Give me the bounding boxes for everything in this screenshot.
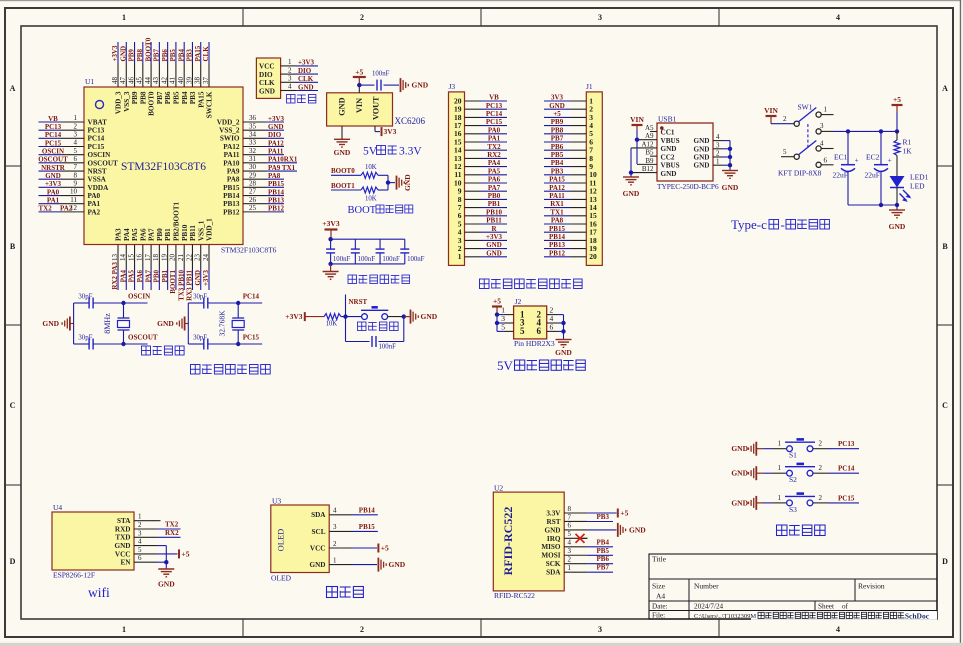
USB1 pin B12 (left) xyxy=(631,165,657,173)
J1 pin 3 xyxy=(570,113,593,122)
net label OSCOUT xyxy=(124,334,158,345)
svg-text:PB1: PB1 xyxy=(161,270,169,283)
U1 pin 17 PA7 (bottom) xyxy=(144,228,156,269)
net label NRST xyxy=(349,298,368,306)
svg-text:Type-c: Type-c xyxy=(731,217,767,232)
svg-text:5: 5 xyxy=(501,322,505,331)
pushbutton S1 xyxy=(785,439,815,459)
U3 pin 1 GND xyxy=(310,556,352,569)
svg-text:3: 3 xyxy=(568,547,572,555)
net label CLK on U1 pin 37 xyxy=(202,42,210,63)
wire USB1 right ground bus xyxy=(722,141,732,171)
svg-text:3.3V: 3.3V xyxy=(546,509,561,517)
svg-text:41: 41 xyxy=(169,77,177,85)
net label PA11 on J1 pin 13 xyxy=(544,192,570,200)
svg-text:PC14: PC14 xyxy=(838,465,855,473)
svg-text:PB8: PB8 xyxy=(136,49,144,62)
net label PA12 on J1 pin 12 xyxy=(544,184,570,192)
svg-text:VDD_3: VDD_3 xyxy=(115,91,123,114)
svg-text:GND: GND xyxy=(334,148,351,157)
net label PC14 xyxy=(238,293,262,304)
capacitor C3 100nF (filter) xyxy=(351,239,375,264)
net label GND on J3 pin 2 xyxy=(481,241,507,249)
J2 pin 3 xyxy=(501,314,513,323)
svg-text:PB12: PB12 xyxy=(549,249,565,257)
svg-text:GND: GND xyxy=(259,87,275,95)
net label +3V3 on U1 pin 36 xyxy=(266,115,285,123)
J1 pin 15 xyxy=(570,211,597,220)
connector USB1 TYPEC-250D-BCP6 body xyxy=(657,115,719,192)
resistor R3 10K (BOOT1) xyxy=(361,187,378,203)
svg-text:19: 19 xyxy=(160,254,168,262)
svg-text:27: 27 xyxy=(249,188,257,196)
svg-text:PA0: PA0 xyxy=(488,126,501,134)
svg-text:B: B xyxy=(10,242,16,251)
svg-text:.SchDoc: .SchDoc xyxy=(903,612,930,621)
J1 pin 2 xyxy=(570,105,593,114)
svg-text:PA15: PA15 xyxy=(197,91,205,108)
caption 单片机引脚外引排针 xyxy=(480,279,583,289)
svg-text:GND: GND xyxy=(486,249,502,257)
net label GND on J3 pin 1 xyxy=(481,249,507,257)
svg-text:GND: GND xyxy=(115,542,131,550)
svg-text:VDD_1: VDD_1 xyxy=(206,218,214,241)
svg-text:47: 47 xyxy=(119,77,127,85)
U1 pin 35 VSS_2 (right) xyxy=(219,122,266,134)
U1 pin 45 PB8 (top) xyxy=(136,63,148,104)
J1 pin 17 xyxy=(570,228,597,237)
svg-text:SDA: SDA xyxy=(311,511,326,519)
svg-text:31: 31 xyxy=(249,155,257,163)
svg-text:PA3: PA3 xyxy=(115,228,123,241)
svg-text:+: + xyxy=(855,156,859,165)
wire SW1 pin3 to power rail xyxy=(834,129,900,133)
J1 pin 11 xyxy=(570,178,597,187)
svg-text:1: 1 xyxy=(333,556,337,564)
net label RX3 PB11 on U1 pin 22 xyxy=(186,269,194,301)
svg-text:2: 2 xyxy=(819,494,823,502)
U1 pin 1 VBAT (left) xyxy=(61,114,107,126)
net label PB13 on J1 pin 19 xyxy=(544,241,570,249)
svg-text:GND: GND xyxy=(42,319,59,328)
svg-text:3: 3 xyxy=(138,529,142,537)
svg-text:TX1: TX1 xyxy=(550,208,564,216)
svg-text:100nF: 100nF xyxy=(372,71,390,78)
power ground for S3 xyxy=(731,496,763,510)
svg-text:VSS_3: VSS_3 xyxy=(123,91,131,112)
net label PC13 xyxy=(838,440,855,448)
net label PA11 on U1 pin 32 xyxy=(266,147,284,155)
svg-text:DIO: DIO xyxy=(268,131,282,139)
U1 pin 31 PA10 (right) xyxy=(223,155,266,167)
svg-text:PA1: PA1 xyxy=(88,200,101,208)
U4 pin 2 RXD xyxy=(115,521,157,533)
svg-text:1K: 1K xyxy=(903,147,913,156)
svg-text:PB1: PB1 xyxy=(488,200,501,208)
reset pushbutton SW2 xyxy=(361,307,388,319)
svg-text:A12: A12 xyxy=(641,140,654,148)
svg-text:SWIO: SWIO xyxy=(220,135,240,143)
svg-text:PB4: PB4 xyxy=(597,538,610,546)
svg-text:BOOT0: BOOT0 xyxy=(148,91,156,116)
svg-text:100nF: 100nF xyxy=(379,344,397,351)
svg-text:PB10: PB10 xyxy=(181,224,189,241)
svg-text:PA0: PA0 xyxy=(47,188,60,196)
U1 pin 7 NRST (left) xyxy=(61,163,107,175)
svg-text:PA11: PA11 xyxy=(224,151,240,159)
J1 pin 6 xyxy=(570,137,593,146)
svg-text:USB1: USB1 xyxy=(658,115,677,124)
U2 pin 6 GND xyxy=(545,522,588,535)
svg-text:PA4: PA4 xyxy=(119,270,127,283)
J1 pin 14 xyxy=(570,203,597,212)
net label PC14 xyxy=(838,465,855,473)
svg-text:PB15: PB15 xyxy=(268,180,284,188)
svg-text:OSCOUT: OSCOUT xyxy=(88,159,119,167)
pushbutton S2 xyxy=(785,464,815,484)
net label PB7 on U2 SDA xyxy=(587,564,613,573)
svg-text:+3V3: +3V3 xyxy=(202,270,210,287)
svg-text:PA6: PA6 xyxy=(139,228,147,241)
net label PB3 on J1 pin 10 xyxy=(544,167,570,175)
svg-text:MOSI: MOSI xyxy=(541,552,560,560)
svg-text:38: 38 xyxy=(194,77,202,85)
svg-text:CC2: CC2 xyxy=(661,153,675,161)
svg-text:100nF: 100nF xyxy=(407,256,425,263)
net label PA6 on U1 pin 16 xyxy=(136,269,144,290)
net label PB6 on U1 pin 42 xyxy=(161,42,169,63)
wire S1 to net PC13 xyxy=(813,440,859,449)
svg-text:A4: A4 xyxy=(656,592,665,601)
U1 pin 42 PB6 (top) xyxy=(160,63,172,104)
svg-text:S1: S1 xyxy=(789,451,797,460)
svg-text:48: 48 xyxy=(111,77,119,85)
caption 晶振电路 xyxy=(142,346,185,355)
svg-text:PB9: PB9 xyxy=(131,91,139,104)
svg-text:5: 5 xyxy=(138,546,142,554)
svg-text:2: 2 xyxy=(288,66,292,74)
J2 pin 4 xyxy=(547,314,557,323)
svg-text:GND: GND xyxy=(731,498,748,507)
svg-text:+5: +5 xyxy=(893,95,901,104)
caption BOOT设置电路 xyxy=(348,205,413,216)
svg-text:S2: S2 xyxy=(789,475,797,484)
svg-text:30pF: 30pF xyxy=(78,294,92,301)
USB1 pin 2 (right) xyxy=(713,150,722,158)
U2 pin 1 SDA xyxy=(546,564,587,577)
svg-text:40: 40 xyxy=(177,77,185,85)
U1 pin 18 PB0 (bottom) xyxy=(152,228,164,269)
svg-text:35: 35 xyxy=(249,122,257,130)
svg-text:TX3 PB10: TX3 PB10 xyxy=(177,270,185,301)
J3 pin 1 xyxy=(458,252,481,261)
svg-text:5V: 5V xyxy=(497,358,514,373)
svg-text:PA4: PA4 xyxy=(488,159,501,167)
svg-text:STM32F103C8T6: STM32F103C8T6 xyxy=(121,161,206,173)
wire reset node NRST xyxy=(341,295,362,319)
J1 pin 13 xyxy=(570,195,597,204)
ground for crystal 8MHz xyxy=(42,317,73,331)
svg-text:PB13: PB13 xyxy=(223,200,240,208)
USB1 pin A9 (left) xyxy=(637,132,657,140)
svg-text:PB3: PB3 xyxy=(189,91,197,104)
power port +3V3 for reset circuit xyxy=(285,312,324,321)
svg-text:PB0: PB0 xyxy=(153,270,161,283)
svg-text:KFT DIP-8X8: KFT DIP-8X8 xyxy=(778,169,822,178)
svg-text:PA15: PA15 xyxy=(549,176,565,184)
svg-text:TYPEC-250D-BCP6: TYPEC-250D-BCP6 xyxy=(657,182,719,191)
net label GND on U1 pin 23 xyxy=(194,269,202,290)
svg-text:PB1: PB1 xyxy=(164,228,172,241)
svg-text:GND: GND xyxy=(298,83,314,91)
U1 pin 15 PA5 (bottom) xyxy=(127,228,139,269)
svg-text:STM32F103C8T6: STM32F103C8T6 xyxy=(221,246,277,255)
USB1 pin 3 (right) xyxy=(713,141,722,149)
svg-text:GND: GND xyxy=(403,174,412,191)
svg-text:PB3: PB3 xyxy=(551,167,564,175)
svg-text:OSCIN: OSCIN xyxy=(128,293,150,301)
svg-text:PB13: PB13 xyxy=(549,241,565,249)
U4 pin 1 STA xyxy=(117,513,157,525)
svg-text:PB9: PB9 xyxy=(551,118,564,126)
svg-text:+3V3: +3V3 xyxy=(285,312,302,321)
net label VB on U1 pin 1 xyxy=(39,115,62,123)
power port +5 on U2 3.3V xyxy=(587,509,628,518)
regulator U5 XC6206 body xyxy=(327,93,426,126)
svg-text:8: 8 xyxy=(568,505,572,513)
net label BOOT1 on U1 pin 20 xyxy=(169,269,177,294)
svg-text:1: 1 xyxy=(288,58,292,66)
P1 pin 1 (download port) xyxy=(281,58,296,66)
J1 pin 19 xyxy=(570,244,597,253)
window top edge line xyxy=(0,0,963,1)
svg-text:GND: GND xyxy=(661,145,677,153)
svg-text:PB7: PB7 xyxy=(597,564,610,572)
net label PB13 on U1 pin 26 xyxy=(266,197,284,205)
U1 pin 33 PA12 (right) xyxy=(223,139,266,151)
J1 pin 16 xyxy=(570,219,597,228)
svg-text:PB15: PB15 xyxy=(223,184,240,192)
svg-text:U1: U1 xyxy=(85,77,94,86)
svg-text:PC15: PC15 xyxy=(838,494,855,502)
caption 芯片滤波电容 xyxy=(348,275,410,284)
caption 显示屏 xyxy=(327,587,364,598)
svg-text:PA6: PA6 xyxy=(488,176,501,184)
svg-text:1: 1 xyxy=(778,440,782,448)
svg-text:PA2: PA2 xyxy=(88,208,101,216)
svg-text:B9: B9 xyxy=(645,157,654,165)
svg-text:PC14: PC14 xyxy=(45,131,62,139)
net label PB8 on U1 pin 45 xyxy=(136,42,144,63)
net label PB14 on U3 SDA xyxy=(352,506,378,515)
svg-text:VIN: VIN xyxy=(355,98,364,113)
U1 pin 25 PB12 (right) xyxy=(223,204,266,216)
svg-text:5: 5 xyxy=(783,148,787,156)
svg-text:GND: GND xyxy=(421,312,438,321)
svg-text:GND: GND xyxy=(722,183,739,192)
net label PC15 xyxy=(238,334,262,345)
svg-text:7: 7 xyxy=(74,163,78,171)
svg-text:PC13: PC13 xyxy=(838,440,855,448)
net label PB6 on J1 pin 7 xyxy=(544,143,570,151)
svg-text:2: 2 xyxy=(819,464,823,472)
svg-text:PB6: PB6 xyxy=(161,49,169,62)
net label GND on P1 pin 4 xyxy=(296,83,318,91)
ground symbol below J2 xyxy=(555,340,572,358)
crystal 32.768K xyxy=(218,301,245,346)
ground for crystal 32.768K xyxy=(157,317,188,331)
svg-text:GND: GND xyxy=(310,561,326,569)
power port +5 for J2 xyxy=(492,297,502,315)
U1 pin 24 VDD_1 (bottom) xyxy=(202,218,214,269)
connector J2 Pin HDR2X3 body xyxy=(514,297,547,339)
wire ground to S3 xyxy=(763,494,787,503)
power port +5 (LED rail) xyxy=(892,95,903,131)
svg-text:6: 6 xyxy=(138,554,142,562)
svg-text:+5: +5 xyxy=(493,297,501,306)
svg-text:PB6: PB6 xyxy=(551,143,564,151)
svg-text:PB8: PB8 xyxy=(139,91,147,104)
net label PB7 on U1 pin 43 xyxy=(153,42,161,63)
module U2 RFID-RC522 body xyxy=(493,484,564,601)
svg-text:3: 3 xyxy=(598,625,602,634)
J3 pin 9 xyxy=(458,187,481,196)
svg-text:VB: VB xyxy=(489,94,499,102)
USB1 pin 1 (right) xyxy=(713,158,722,166)
caption 下载口 (download port) xyxy=(287,95,316,104)
svg-text:Date:: Date: xyxy=(652,603,668,611)
LED1 xyxy=(890,173,929,206)
power ground right of 100nF xyxy=(401,78,429,92)
U1 pin 27 PB14 (right) xyxy=(223,188,266,200)
svg-text:20: 20 xyxy=(589,252,597,261)
svg-text:DIO: DIO xyxy=(298,67,312,75)
svg-text:PA7: PA7 xyxy=(148,228,156,241)
net label PB15 on U1 pin 28 xyxy=(266,180,284,188)
svg-text:SWCLK: SWCLK xyxy=(206,91,214,118)
USB1 pin 4 (right) xyxy=(713,133,722,141)
capacitor C2 100nF (filter) xyxy=(326,239,350,264)
net label PB11 on J3 pin 5 xyxy=(481,217,507,225)
J1 pin 4 xyxy=(570,121,593,130)
wire crystal 32.768K left rail xyxy=(187,303,189,344)
caption 复位电路 xyxy=(358,322,399,331)
caption 单片机最小系统 xyxy=(191,365,271,375)
svg-text:42: 42 xyxy=(160,77,168,85)
svg-text:7: 7 xyxy=(568,513,572,521)
svg-text:1: 1 xyxy=(716,158,720,166)
net label PB9 on U1 pin 46 xyxy=(128,42,136,63)
svg-text:13: 13 xyxy=(111,254,119,262)
svg-text:2: 2 xyxy=(783,115,787,123)
power port +5 on U3 VCC xyxy=(352,544,389,553)
svg-text:OSCOUT: OSCOUT xyxy=(128,334,158,342)
U1 pin 48 VDD_3 (top) xyxy=(111,63,123,114)
connector J1 header body xyxy=(586,82,602,265)
U1 pin 47 VSS_3 (top) xyxy=(119,63,131,112)
svg-text:PB13: PB13 xyxy=(268,197,284,205)
svg-text:Size: Size xyxy=(652,582,666,591)
svg-text:PB15: PB15 xyxy=(359,523,375,531)
net label R on J3 pin 4 xyxy=(481,225,507,233)
net label PC15 xyxy=(838,494,855,502)
wire ground to S2 xyxy=(763,464,787,473)
microcontroller U1 STM32F103C8T6 body xyxy=(84,77,277,255)
net label PB12 on U1 pin 25 xyxy=(266,205,284,213)
svg-text:3: 3 xyxy=(333,523,337,531)
net label PB4 on J1 pin 9 xyxy=(544,159,570,167)
net label PA12 on U1 pin 33 xyxy=(266,139,284,147)
J1 pin 7 xyxy=(570,146,593,155)
svg-text:GND: GND xyxy=(486,241,502,249)
svg-text:+5: +5 xyxy=(620,509,628,518)
svg-text:1: 1 xyxy=(122,13,126,22)
caption 独立按键 xyxy=(777,525,826,536)
svg-text:OLED: OLED xyxy=(271,574,292,583)
wire VIN to USB1 VBUS pins xyxy=(635,130,639,164)
J1 pin 18 xyxy=(570,236,597,245)
net label PB15 on U3 SCL xyxy=(352,523,378,532)
net label TX2 on U4 RXD xyxy=(157,521,181,530)
U1 pin 21 PB10 (bottom) xyxy=(177,224,189,269)
svg-text:LED1: LED1 xyxy=(910,173,929,182)
svg-text:39: 39 xyxy=(185,77,193,85)
svg-text:ESP8266-12F: ESP8266-12F xyxy=(53,571,95,580)
net label BOOT0 xyxy=(331,167,361,175)
svg-text:PB0: PB0 xyxy=(488,192,501,200)
net label PA0 on J3 pin 16 xyxy=(481,126,507,134)
svg-text:File:: File: xyxy=(652,612,665,620)
svg-text:BOOT: BOOT xyxy=(348,205,377,216)
svg-text:2: 2 xyxy=(333,540,337,548)
svg-text:R1: R1 xyxy=(903,138,912,147)
svg-text:+: + xyxy=(888,156,892,165)
J1 pin 20 xyxy=(570,252,597,261)
svg-text:PB14: PB14 xyxy=(549,233,565,241)
svg-text:2: 2 xyxy=(138,521,142,529)
J3 pin 15 xyxy=(454,137,481,146)
title block xyxy=(649,554,937,620)
net label PA5 on U1 pin 15 xyxy=(128,269,136,290)
svg-text:NRSTR: NRSTR xyxy=(41,164,66,172)
svg-text:GND: GND xyxy=(119,46,127,62)
svg-text:EC2: EC2 xyxy=(866,153,880,162)
svg-text:4: 4 xyxy=(716,133,720,141)
svg-text:B12: B12 xyxy=(642,165,654,173)
J2 pin 5 xyxy=(501,322,513,331)
svg-text:30pF: 30pF xyxy=(78,335,92,342)
svg-text:PA5: PA5 xyxy=(131,228,139,241)
net label TX2 on J3 pin 14 xyxy=(481,143,507,151)
svg-text:CLK: CLK xyxy=(202,46,210,62)
svg-text:10K: 10K xyxy=(365,196,377,203)
svg-text:1: 1 xyxy=(122,625,126,634)
svg-text:5: 5 xyxy=(568,530,572,538)
svg-text:PB9: PB9 xyxy=(128,49,136,62)
net label PC15 on U1 pin 4 xyxy=(39,139,62,147)
net label PB1 on U1 pin 19 xyxy=(161,269,169,290)
svg-text:PB3: PB3 xyxy=(186,49,194,62)
svg-text:LED: LED xyxy=(910,182,925,191)
svg-text:PC15: PC15 xyxy=(45,139,62,147)
net label DIO on P1 pin 2 xyxy=(296,67,318,75)
power ground for BOOT circuit xyxy=(397,174,413,191)
svg-text:44: 44 xyxy=(144,77,152,85)
svg-text:BOOT0: BOOT0 xyxy=(331,167,355,175)
net label PB3 on U1 pin 39 xyxy=(186,42,194,63)
ground symbol left of USB1 xyxy=(623,177,640,198)
svg-text:U4: U4 xyxy=(53,503,62,512)
